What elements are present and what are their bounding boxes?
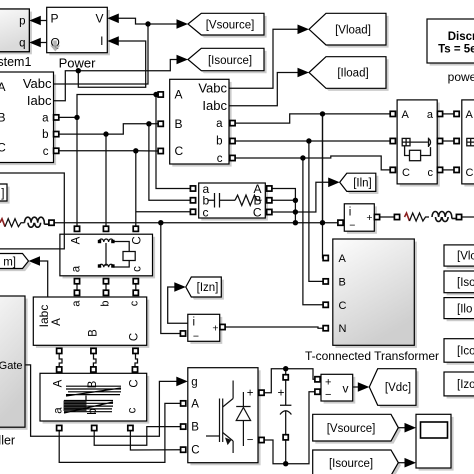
svg-text:b: b [216,136,222,148]
svg-text:A: A [339,253,347,265]
svg-text:+: + [247,388,254,400]
svg-text:A: A [71,236,83,244]
svg-text:A: A [0,80,6,94]
svg-text:+: + [325,376,331,388]
svg-text:C: C [132,236,144,244]
svg-text:−: − [325,389,331,401]
svg-text:[Iload]: [Iload] [337,68,368,80]
svg-text:+: + [366,212,372,224]
svg-text:B: B [88,329,100,337]
svg-text:c: c [132,266,144,272]
svg-text:P: P [51,12,59,26]
svg-text:A: A [175,88,183,102]
svg-text:c: c [129,300,141,306]
svg-text:[Iln]: [Iln] [353,178,372,190]
svg-text:g: g [191,376,197,388]
svg-text:[Isource]: [Isource] [329,458,373,470]
svg-text:c: c [43,146,49,158]
svg-text:[Vsource]: [Vsource] [206,20,255,32]
svg-text:B: B [87,380,99,388]
svg-text:c: c [217,153,223,165]
svg-text:[Iso: [Iso [457,277,474,289]
svg-text:[Vsource]: [Vsource] [327,423,376,435]
svg-text:A: A [466,109,474,121]
svg-text:i: i [349,207,352,219]
svg-text:Ts = 5e-05 s.: Ts = 5e-05 s. [438,44,474,56]
svg-text:Vabc: Vabc [198,80,227,95]
svg-text:B: B [339,276,346,288]
svg-text:−: − [247,435,254,447]
svg-text:Gate: Gate [0,360,23,372]
svg-text:c: c [203,205,209,219]
svg-text:Iabc: Iabc [202,98,227,113]
svg-text:I: I [100,34,103,48]
svg-text:a: a [71,300,83,307]
svg-text:a: a [42,112,49,124]
svg-text:]: ] [1,188,4,200]
svg-text:[Izo: [Izo [457,379,474,391]
svg-text:[Vload]: [Vload] [335,25,371,37]
svg-text:C: C [402,167,410,179]
svg-text:C: C [129,379,141,387]
svg-text:V: V [95,12,103,26]
svg-text:Iabc: Iabc [37,305,51,328]
svg-text:a: a [216,118,223,130]
svg-text:Iabc: Iabc [27,93,52,108]
svg-text:i: i [193,317,196,329]
svg-text:Subsystem1: Subsystem1 [0,55,31,69]
svg-text:[Vlo: [Vlo [457,251,474,263]
svg-text:v: v [343,382,349,396]
svg-text:A: A [53,379,65,387]
svg-text:−: − [193,331,199,343]
svg-text:+: + [212,323,218,335]
svg-text:a: a [53,407,65,414]
svg-text:b: b [42,129,48,141]
svg-text:A: A [191,398,199,410]
svg-text:C: C [129,333,141,341]
svg-text:c: c [428,167,434,179]
svg-text:q: q [19,37,25,49]
svg-text:C: C [0,141,6,155]
svg-text:a: a [71,265,83,272]
svg-text:b: b [100,300,112,306]
svg-text:[Izn]: [Izn] [197,282,219,294]
svg-text:[Ilo: [Ilo [457,303,472,315]
svg-text:C: C [175,144,184,158]
svg-text:powergui: powergui [448,70,474,84]
svg-text:A: A [51,318,63,326]
svg-text:B: B [0,110,6,124]
svg-text:A: A [402,109,410,121]
svg-text:C: C [253,205,262,219]
svg-text:a: a [427,109,434,121]
svg-text:B: B [175,117,183,131]
svg-text:+: + [277,386,284,400]
svg-text:−: − [349,220,355,232]
svg-text:Discrete,: Discrete, [448,31,474,43]
svg-text:p: p [19,15,25,27]
svg-text:m]: m] [3,256,16,268]
svg-text:c: c [127,407,139,413]
svg-text:B: B [191,422,199,434]
svg-text:[Isource]: [Isource] [208,55,252,67]
svg-text:[Ico: [Ico [457,346,474,358]
svg-text:[Vdc]: [Vdc] [385,382,411,394]
svg-text:Controller: Controller [0,434,15,448]
svg-text:N: N [339,323,347,335]
svg-text:Vabc: Vabc [23,76,52,91]
svg-text:C: C [466,167,474,179]
svg-text:C: C [191,445,199,457]
svg-text:T-connected Transformer: T-connected Transformer [305,349,439,363]
svg-text:C: C [339,300,347,312]
